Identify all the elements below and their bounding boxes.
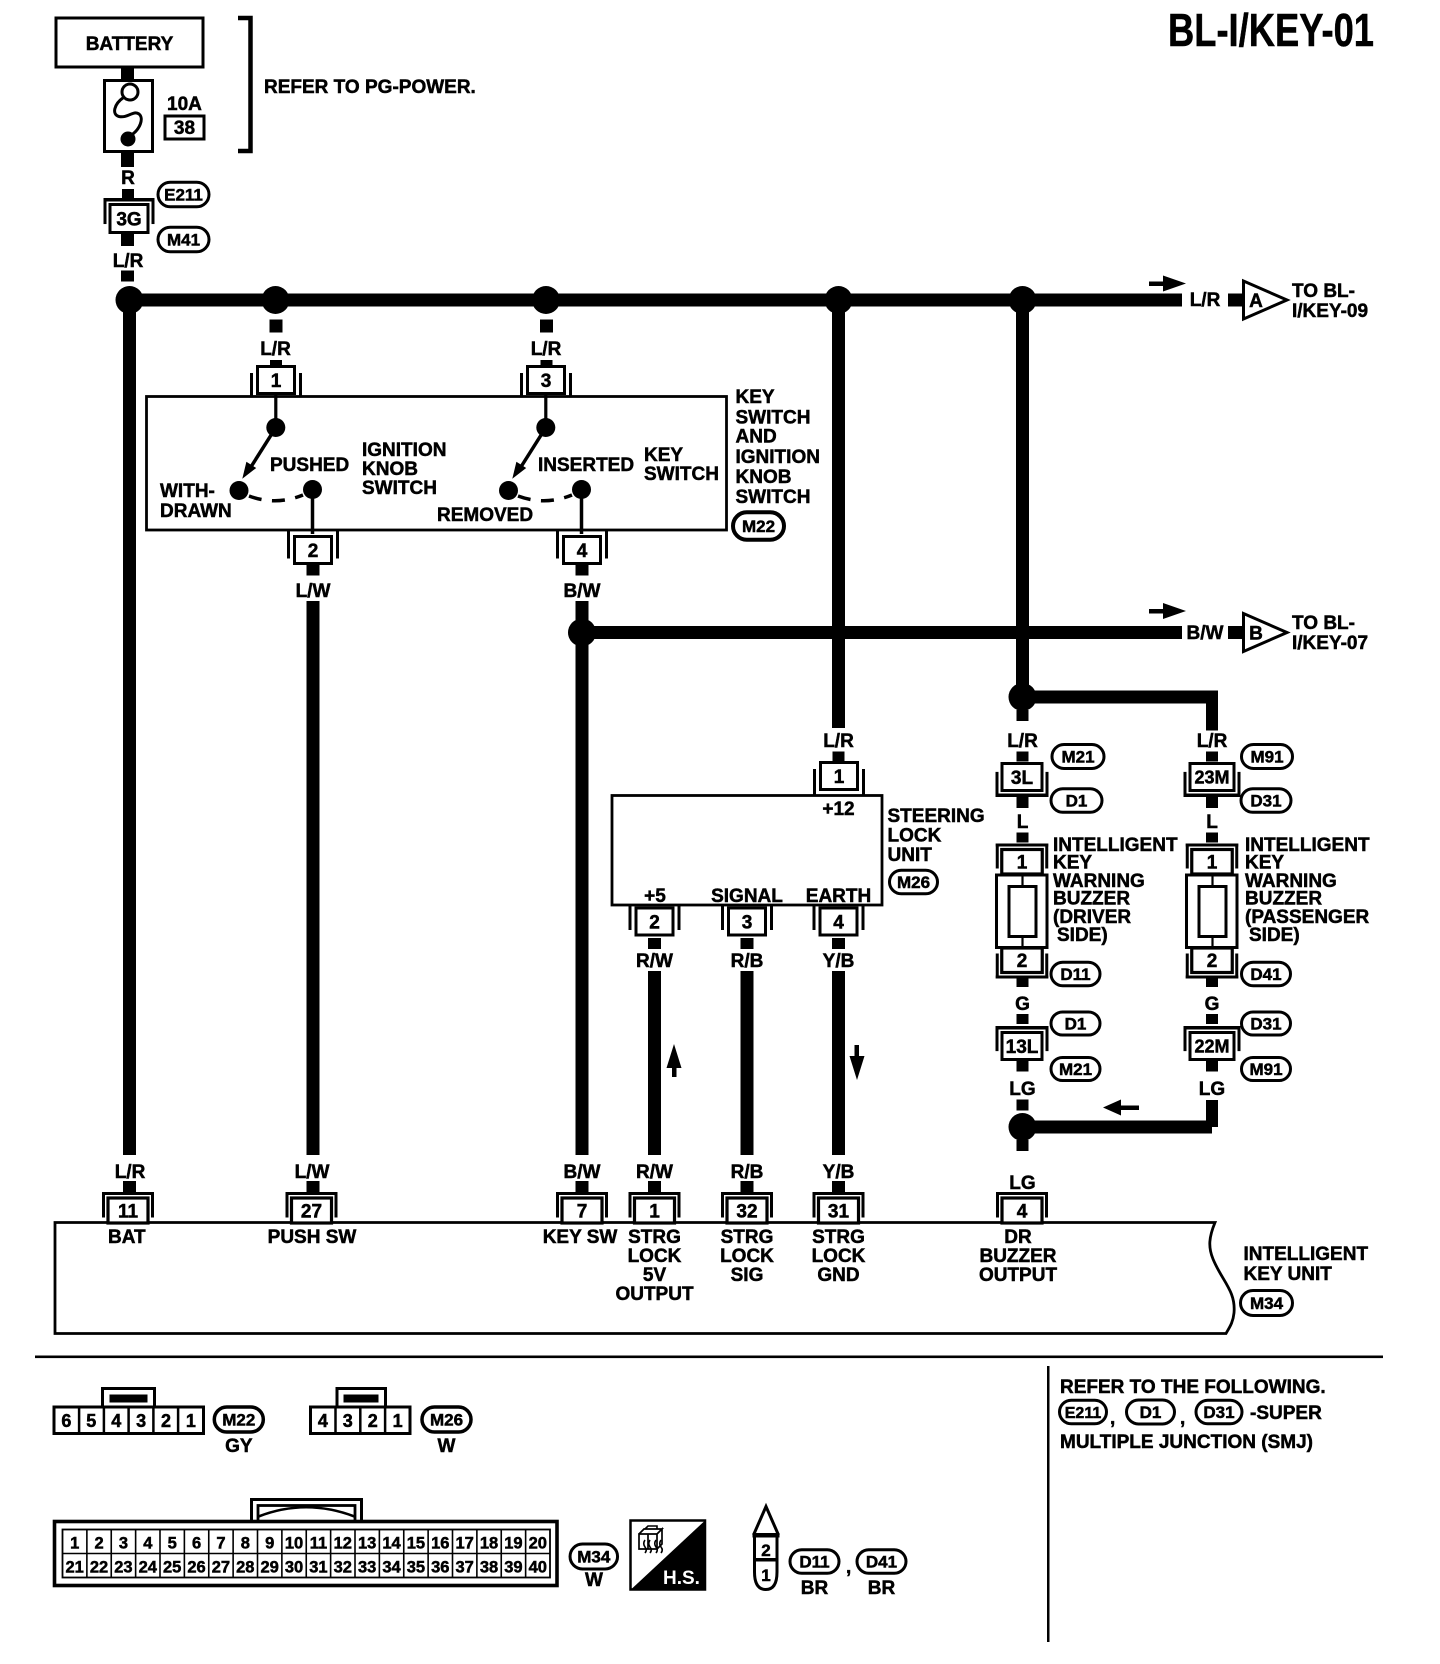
svg-text:G: G [1015,994,1030,1015]
dash [122,189,134,200]
svg-text:E211: E211 [164,186,203,205]
svg-text:9: 9 [265,1535,274,1553]
svg-text:39: 39 [504,1559,522,1577]
svg-text:STRG: STRG [812,1227,865,1248]
B/W bus wire [582,626,1182,639]
svg-text:L/R: L/R [1190,290,1221,311]
wire B/W down to KEY SW pin 7 [576,632,589,1155]
stub to triangle B [1228,626,1242,639]
svg-text:3: 3 [343,1411,353,1431]
svg-text:A: A [1249,291,1263,312]
svg-text:3: 3 [119,1535,128,1553]
svg-text:LG: LG [1199,1079,1225,1100]
key unit pin 27 PUSH SW [286,1192,338,1195]
svg-text:SWITCH: SWITCH [362,478,437,499]
svg-text:27: 27 [212,1559,230,1577]
svg-text:M22: M22 [222,1411,255,1430]
svg-text:1: 1 [1207,853,1218,874]
svg-text:AND: AND [736,427,777,448]
key unit pin 11 BAT [102,1192,154,1195]
svg-text:M41: M41 [167,231,200,250]
wire battery to fuse [121,67,134,80]
key unit pin 1 STRG LOCK 5V [629,1192,681,1195]
svg-text:M21: M21 [1061,748,1094,767]
svg-text:2: 2 [1207,951,1218,972]
junction dot [1009,286,1037,314]
wire L/R bus to BAT pin 11 [123,300,136,1155]
connector ref D31 [1242,1012,1291,1035]
dash [1206,833,1218,843]
svg-text:BR: BR [868,1578,896,1599]
svg-text:SIG: SIG [731,1265,764,1286]
dash [1206,752,1218,762]
svg-text:L/W: L/W [295,1162,330,1183]
svg-text:STRG: STRG [721,1227,774,1248]
svg-text:15: 15 [407,1535,425,1553]
arrow on bus [1149,282,1171,287]
wire L/R bus to buzzers [1016,300,1029,691]
key switch pin 4 [564,537,601,564]
connector 23M [1184,794,1241,798]
svg-text:OUTPUT: OUTPUT [979,1265,1058,1286]
svg-text:1: 1 [834,767,845,788]
svg-text:25: 25 [163,1559,181,1577]
connector ref D31 [1241,789,1291,813]
stub [648,938,661,949]
svg-text:D31: D31 [1250,792,1281,811]
steering lock pin 1 [821,763,858,790]
wire 22M down to LG branch [1206,1100,1218,1127]
wire L/W down to PUSH SW [307,601,320,1155]
bracket refer to pg-power [238,18,251,151]
svg-text:I/KEY-07: I/KEY-07 [1292,633,1368,654]
svg-text:5: 5 [168,1535,177,1553]
key switch symbol [544,394,547,421]
svg-text:INSERTED: INSERTED [538,455,634,476]
dash [833,752,845,762]
svg-text:R/B: R/B [731,951,764,972]
svg-text:14: 14 [382,1535,401,1553]
down arrow on Y/B wire [855,1045,860,1064]
connector ref M21 [1052,745,1104,769]
svg-text:21: 21 [66,1559,84,1577]
svg-text:OUTPUT: OUTPUT [615,1284,694,1305]
svg-text:2: 2 [761,1541,770,1560]
svg-text:22M: 22M [1194,1036,1229,1056]
main L/R bus wire [127,294,1182,307]
svg-text:BL-I/KEY-01: BL-I/KEY-01 [1168,4,1374,56]
key unit pin 7 KEY SW [556,1192,608,1195]
junction dot B/W [568,619,596,647]
svg-text:30: 30 [285,1559,303,1577]
svg-text:1: 1 [1017,853,1028,874]
svg-text:3: 3 [742,912,753,933]
svg-text:5V: 5V [643,1265,667,1286]
svg-text:KEY: KEY [736,387,775,408]
steering lock pin 4 [820,908,857,935]
svg-text:R/B: R/B [731,1162,764,1183]
buzzer pin 2 passenger [1186,976,1239,979]
svg-text:6: 6 [61,1411,71,1431]
svg-text:4: 4 [577,541,588,562]
svg-text:BAT: BAT [108,1227,146,1248]
svg-text:L: L [1206,812,1218,833]
svg-text:M34: M34 [577,1548,611,1567]
buzzer pin 1 passenger [1186,844,1239,847]
svg-text:L: L [1017,812,1029,833]
dash [1206,1014,1218,1024]
connector ref M22 face [214,1407,263,1432]
svg-text:TO BL-: TO BL- [1292,281,1355,302]
svg-text:1: 1 [70,1535,79,1553]
buzzer pin 1 driver [996,844,1049,847]
svg-text:10A: 10A [167,94,202,115]
connector ref E211 [1060,1400,1107,1424]
svg-text:23: 23 [114,1559,132,1577]
svg-text:31: 31 [828,1201,850,1222]
connector ref M91 [1242,745,1293,769]
connector ref M26 face [422,1407,471,1432]
dash [541,360,553,371]
dash [270,360,282,371]
svg-text:7: 7 [216,1535,225,1553]
svg-text:REMOVED: REMOVED [437,505,533,526]
off-page connector A to BL-I/KEY-09 [1244,281,1288,319]
svg-text:DR: DR [1004,1227,1032,1248]
svg-text:16: 16 [431,1535,449,1553]
svg-text:36: 36 [431,1559,449,1577]
stub [1206,976,1218,987]
svg-text:D1: D1 [1066,792,1088,811]
arrow on B/W bus [1149,609,1171,614]
steering lock pin 3 [729,908,766,935]
connector ref M22 [733,512,784,540]
svg-text:,: , [846,1557,851,1578]
stub below 22M [1206,1061,1218,1072]
view pointer connector 2/1 [754,1507,779,1536]
steering lock pin 2 [636,908,673,935]
svg-text:1: 1 [761,1566,770,1585]
dash [1017,833,1029,843]
svg-text:B/W: B/W [1187,623,1224,644]
dash below dot [270,320,283,333]
svg-text:KNOB: KNOB [362,459,418,480]
svg-text:L/R: L/R [1197,731,1228,752]
svg-text:G: G [1205,994,1220,1015]
wire Y/B to STRG LOCK GND [832,971,845,1155]
svg-text:17: 17 [456,1535,474,1553]
svg-text:5: 5 [86,1411,96,1431]
svg-text:WITH-: WITH- [160,481,215,502]
connector ref D1 [1051,789,1102,813]
svg-text:M34: M34 [1250,1294,1284,1313]
svg-text:KEY: KEY [644,445,683,466]
svg-text:BATTERY: BATTERY [86,34,174,55]
left arrow on LG branch [1120,1106,1139,1111]
dash below dot [1017,710,1029,721]
wire R/B to STRG LOCK SIG [741,971,754,1155]
svg-text:LOCK: LOCK [628,1246,682,1267]
svg-text:PUSH SW: PUSH SW [268,1227,357,1248]
svg-text:D31: D31 [1250,1015,1281,1034]
connector 3L [996,794,1049,798]
svg-text:D31: D31 [1203,1403,1234,1422]
svg-text:2: 2 [161,1411,171,1431]
svg-text:11: 11 [118,1201,139,1222]
wire R/W to STRG LOCK 5V OUTPUT [648,971,661,1155]
up arrow on R/W wire [672,1058,677,1077]
junction dot [532,286,560,314]
svg-text:EARTH: EARTH [806,886,871,907]
svg-text:2: 2 [368,1411,378,1431]
svg-text:STEERING: STEERING [888,806,985,827]
buzzer body passenger [1187,875,1238,948]
svg-text:REFER TO PG-POWER.: REFER TO PG-POWER. [264,77,476,98]
svg-text:2: 2 [1017,951,1028,972]
connector ref M34 face [570,1544,618,1569]
connector ref M41 [158,227,209,252]
svg-text:+12: +12 [822,799,854,820]
junction dot [116,286,144,314]
svg-text:GND: GND [817,1265,859,1286]
stub below pin 4 [576,564,589,576]
connector face M22 [103,1389,155,1408]
stub below pin 2 [307,564,320,576]
stub [741,938,754,949]
junction dot [262,286,290,314]
svg-text:32: 32 [736,1201,757,1222]
svg-text:38: 38 [174,118,195,139]
svg-text:D41: D41 [866,1553,897,1572]
branch wire to passenger buzzer [1022,691,1212,704]
stub [832,938,845,949]
svg-text:1: 1 [393,1411,403,1431]
svg-text:28: 28 [236,1559,254,1577]
buzzer body driver [997,875,1048,948]
svg-text:SWITCH: SWITCH [736,487,811,508]
dash [1017,1100,1029,1111]
svg-text:,: , [1180,1408,1185,1429]
svg-text:B/W: B/W [564,581,601,602]
svg-text:31: 31 [309,1559,327,1577]
wire fuse to R [121,151,134,167]
svg-text:35: 35 [407,1559,425,1577]
svg-text:SIDE): SIDE) [1249,925,1300,946]
svg-text:STRG: STRG [628,1227,681,1248]
svg-text:R/W: R/W [636,951,673,972]
buzzer pin 2 driver [996,976,1049,979]
svg-text:4: 4 [318,1411,328,1431]
svg-text:BUZZER: BUZZER [979,1246,1056,1267]
off-page connector B to BL-I/KEY-07 [1244,614,1288,652]
wire L/R bus to steering lock +12 [832,300,845,728]
svg-text:LG: LG [1009,1173,1035,1194]
svg-text:7: 7 [577,1201,588,1222]
svg-text:Y/B: Y/B [823,1162,855,1183]
svg-text:26: 26 [187,1559,205,1577]
svg-text:1: 1 [186,1411,196,1431]
refer to the following [1047,1366,1050,1642]
connector face M34 40pin [252,1500,362,1522]
connector ref D1 [1051,1012,1100,1035]
fuse number 38 box [165,116,204,139]
svg-text:2: 2 [649,912,660,933]
svg-text:IGNITION: IGNITION [736,447,820,468]
svg-text:,: , [1110,1408,1115,1429]
wire down to 23M [1206,691,1218,731]
dash [1017,1014,1029,1024]
connector ref M34 [1241,1291,1293,1316]
svg-text:13: 13 [358,1535,376,1553]
svg-text:D11: D11 [1060,965,1090,984]
svg-text:SWITCH: SWITCH [644,464,719,485]
connector ref M91 [1242,1058,1291,1081]
svg-text:M91: M91 [1250,748,1283,767]
svg-text:LOCK: LOCK [812,1246,866,1267]
svg-text:KEY SW: KEY SW [543,1227,618,1248]
svg-text:M21: M21 [1059,1060,1092,1079]
svg-text:L/R: L/R [823,731,854,752]
svg-text:1: 1 [649,1201,660,1222]
svg-text:L/R: L/R [113,251,144,272]
ignition knob switch symbol [274,394,277,421]
svg-text:L/W: L/W [296,581,331,602]
key/ign switch pin 1 [258,367,295,394]
junction dot [825,286,853,314]
svg-text:13L: 13L [1006,1037,1039,1058]
svg-text:11: 11 [310,1535,327,1553]
svg-text:4: 4 [833,912,844,933]
svg-text:R: R [121,168,135,189]
svg-text:L/R: L/R [531,339,562,360]
svg-text:33: 33 [358,1559,376,1577]
svg-text:8: 8 [241,1535,250,1553]
svg-text:10: 10 [285,1535,303,1553]
svg-text:27: 27 [301,1201,322,1222]
svg-text:37: 37 [456,1559,474,1577]
svg-text:3G: 3G [116,209,141,230]
svg-text:PUSHED: PUSHED [270,455,349,476]
svg-text:4: 4 [111,1411,121,1431]
svg-text:34: 34 [382,1559,401,1577]
separator line [35,1356,1383,1359]
svg-text:M26: M26 [897,873,930,892]
svg-text:12: 12 [334,1535,352,1553]
svg-text:L/R: L/R [115,1162,146,1183]
connector ref D1 [1127,1400,1175,1424]
junction dot LG [1009,1113,1037,1141]
svg-text:BR: BR [801,1578,829,1599]
svg-text:40: 40 [529,1559,547,1577]
key/ign switch pin 3 [528,367,565,394]
svg-text:SIGNAL: SIGNAL [711,886,783,907]
H.S. hand symbol logo [631,1521,706,1590]
connector 13L [996,1026,1049,1030]
connector 3G [104,198,155,202]
svg-text:3L: 3L [1011,768,1034,789]
battery box [56,18,203,67]
stub [1206,797,1218,808]
stub [1017,797,1029,808]
fuse 10A 38 [105,81,153,152]
intelligent key unit box M34 [55,1223,1234,1334]
connector face M26 [337,1389,386,1408]
svg-text:18: 18 [480,1535,498,1553]
svg-text:B/W: B/W [564,1162,601,1183]
key unit pin 4 DR BUZZER OUTPUT [996,1192,1048,1195]
svg-text:1: 1 [271,371,282,392]
svg-text:INTELLIGENT: INTELLIGENT [1244,1244,1369,1265]
svg-text:24: 24 [139,1559,158,1577]
stub to triangle A [1228,294,1242,307]
connector ref D31 [1196,1400,1242,1424]
svg-text:DRAWN: DRAWN [160,501,232,522]
key switch and ignition knob switch box M22 [147,397,727,531]
svg-text:D1: D1 [1065,1015,1087,1034]
svg-text:LOCK: LOCK [720,1246,774,1267]
svg-text:M91: M91 [1249,1060,1282,1079]
svg-text:22: 22 [90,1559,108,1577]
svg-text:H.S.: H.S. [663,1568,700,1589]
svg-text:2: 2 [94,1535,103,1553]
dash below LG dot [1017,1140,1029,1151]
connector ref D11 [1051,962,1100,986]
svg-text:D41: D41 [1250,965,1281,984]
svg-text:+5: +5 [644,886,666,907]
svg-text:3: 3 [541,371,552,392]
connector ref D41 [857,1550,906,1574]
connector ref M21 [1051,1058,1100,1081]
dash [1017,752,1029,762]
svg-text:L/R: L/R [260,339,291,360]
svg-text:W: W [585,1570,603,1591]
svg-text:KNOB: KNOB [736,467,792,488]
svg-text:2: 2 [308,541,319,562]
dash below dot [540,320,553,333]
LG branch wire from passenger buzzer [1022,1121,1212,1134]
connector ref D11 [790,1550,839,1574]
svg-text:4: 4 [143,1535,153,1553]
svg-text:TO BL-: TO BL- [1292,613,1355,634]
stub [1017,976,1029,987]
key unit pin 32 STRG LOCK SIG [721,1192,773,1195]
svg-text:-SUPER: -SUPER [1250,1403,1322,1424]
svg-text:D1: D1 [1140,1403,1162,1422]
stub [1017,1061,1029,1072]
svg-text:LG: LG [1009,1079,1035,1100]
svg-text:M26: M26 [430,1411,463,1430]
svg-text:32: 32 [334,1559,352,1577]
svg-text:KEY UNIT: KEY UNIT [1244,1264,1333,1285]
svg-text:4: 4 [1017,1201,1028,1222]
svg-text:LOCK: LOCK [888,826,942,847]
steering lock unit box M26 [612,796,882,906]
svg-text:E211: E211 [1065,1405,1102,1422]
svg-text:19: 19 [504,1535,522,1553]
key unit pin 31 STRG LOCK GND [813,1192,865,1195]
svg-text:SIDE): SIDE) [1057,925,1108,946]
svg-text:GY: GY [225,1436,253,1457]
connector 22M [1184,1026,1241,1030]
svg-text:L/R: L/R [1007,731,1038,752]
svg-text:R/W: R/W [636,1162,673,1183]
junction dot buzzer branch [1009,683,1037,711]
svg-text:Y/B: Y/B [823,951,855,972]
svg-text:20: 20 [529,1535,547,1553]
svg-text:UNIT: UNIT [888,845,933,866]
svg-text:M22: M22 [742,517,775,536]
svg-text:IGNITION: IGNITION [362,440,446,461]
